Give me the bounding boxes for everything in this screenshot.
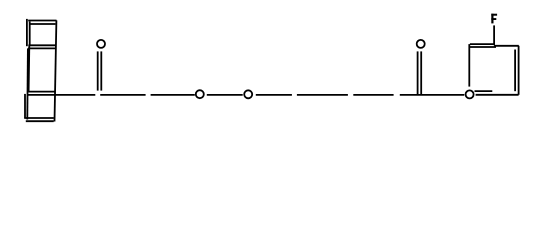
atom label O3 chain oxygen	[244, 90, 252, 98]
cage mid connector left inner	[28, 45, 31, 91]
atom label F fluorine	[491, 14, 497, 24]
wire chain bond C5 to C6	[353, 94, 393, 96]
benzene ring left edge	[468, 44, 470, 87]
atom label O5 ester oxygen at ring	[466, 90, 474, 98]
wire chain bond O3 to C4	[256, 94, 292, 96]
cage top-square bottom edge outer	[28, 47, 56, 49]
benzene ring top-right bond	[494, 45, 519, 47]
cage left inner vertical	[29, 22, 31, 46]
cage top edge inner	[29, 23, 55, 25]
carbonyl C6=O double bond line b	[420, 51, 422, 94]
cage bottom-square bottom edge inner	[24, 117, 54, 119]
cage bottom-square outer-left vertical	[24, 94, 26, 119]
wire chain bond O2 to O3	[207, 94, 243, 96]
atom label O2 chain oxygen	[196, 90, 204, 98]
wire chain bond C4 to C5	[297, 94, 348, 96]
carbonyl C6=O double bond line a	[417, 51, 419, 94]
benzene ring right edge	[518, 46, 520, 95]
wire chain bond C6 to ester O5	[400, 94, 465, 96]
wire chain bond C2 to O2	[151, 94, 195, 96]
benzene ring top-left bond outline	[470, 43, 494, 45]
bond ring carbon to F	[493, 25, 495, 45]
benzene ring right double bond inner line	[514, 50, 516, 92]
cage mid connector left outer	[26, 48, 29, 119]
carbonyl C1=O double bond line b	[100, 51, 102, 90]
atom label O4 carbonyl oxygen right	[417, 40, 425, 48]
wire chain bond cage to carbonyl C1	[28, 94, 95, 96]
cage left outer vertical	[26, 19, 28, 46]
benzene ring top-left double bond inner line	[469, 46, 496, 48]
atom label O1 carbonyl oxygen left	[97, 40, 105, 48]
wire chain bond C1 to C2	[100, 94, 145, 96]
cage bottom-square top edge inner	[28, 91, 55, 93]
cage top-square bottom edge inner	[28, 44, 55, 46]
benzene ring bottom-left double bond inner line	[475, 90, 493, 92]
carbonyl C1=O double bond line a	[97, 51, 99, 90]
benzene ring bottom edge	[476, 94, 519, 96]
cage bottom-square bottom edge outer	[26, 120, 54, 122]
cage top edge outer	[28, 20, 56, 22]
cage right vertical	[55, 20, 57, 121]
